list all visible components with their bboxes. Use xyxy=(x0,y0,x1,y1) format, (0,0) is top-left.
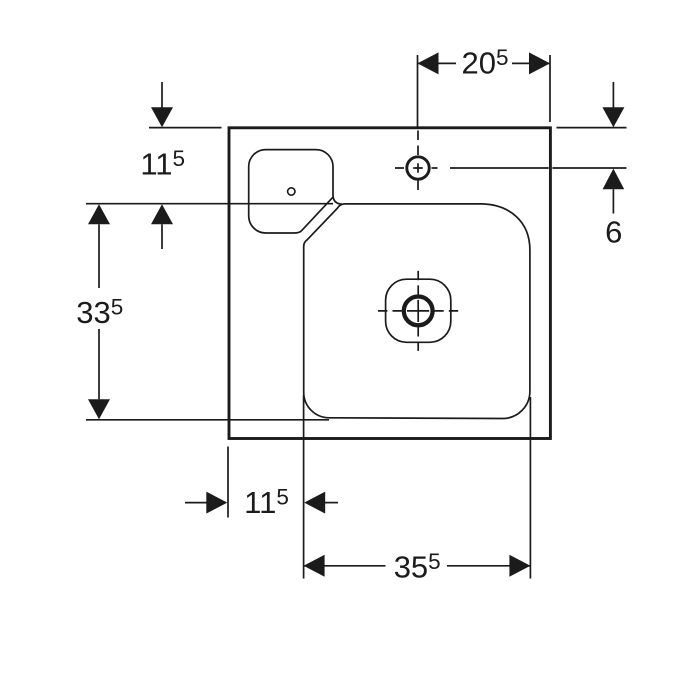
dimension 20.5: dimension line segments xyxy=(418,62,551,64)
dimension 11.5 bottom: left arrowhead (pointing right) xyxy=(206,492,227,514)
dimension 20.5: left extension line (tap centerline up) xyxy=(417,55,419,128)
dimension 11.5 bottom: left arrow tail xyxy=(185,502,207,504)
svg-text:6: 6 xyxy=(605,214,622,249)
main basin outline with chamfered top-left spillway xyxy=(304,204,530,419)
dimension 33.5: up arrowhead xyxy=(88,204,110,224)
overflow hole in small bowl xyxy=(288,188,295,195)
dimension 35.5: dimension line segments xyxy=(304,565,531,567)
dimension 33.5: dimension line lower segment xyxy=(98,329,100,399)
dimension 11.5 top-left: down arrowhead xyxy=(151,107,173,127)
dimension 35.5: left arrowhead xyxy=(304,555,325,577)
svg-text:335: 335 xyxy=(76,294,123,330)
dimension 33.5: lower boundary line xyxy=(86,419,329,421)
dimension 11.5 bottom: right arrow tail xyxy=(325,502,338,504)
dimension 35.5: right arrowhead xyxy=(509,555,530,577)
dimension 35.5: right extension line (basin right edge down) xyxy=(529,397,531,579)
small corner bowl outline (top-left shelf bowl) xyxy=(249,150,342,233)
dimension 20.5: right arrowhead xyxy=(529,52,550,74)
dimension 11.5 top-left: up arrowhead xyxy=(151,204,173,224)
dimension 11.5 top-left: down arrow tail xyxy=(161,82,163,108)
tap hole horizontal centerline extending right to 6-dimension xyxy=(395,167,627,169)
drain vertical centerline (dashed) xyxy=(417,271,419,351)
tap hole vertical centerline (dashed) xyxy=(417,131,419,191)
dimension 11.5 top-left: top edge extension line xyxy=(149,127,222,129)
dimension 11.5 bottom: left extension line below square xyxy=(227,447,229,518)
dimension 6: down arrowhead xyxy=(602,107,624,127)
svg-text:205: 205 xyxy=(462,45,509,81)
dimension 11.5 top-left: up arrow tail xyxy=(161,224,163,249)
svg-text:115: 115 xyxy=(140,146,185,182)
dimension 20.5: left arrowhead xyxy=(418,52,439,74)
washbasin outer rim (square, top view) xyxy=(229,128,550,439)
svg-text:355: 355 xyxy=(394,549,441,585)
drain ring (thick circle) xyxy=(404,297,433,326)
dimension 6: up arrowhead xyxy=(603,169,625,190)
drain outer cover (rounded square) xyxy=(386,279,451,342)
dimension 11.5 bottom: right extension line (basin left edge down) xyxy=(303,395,305,579)
tap hole circle xyxy=(407,157,429,179)
dimension 20.5: right extension line xyxy=(549,55,551,122)
dimension 33.5: dimension line upper segment xyxy=(98,224,100,288)
dimension 6: up arrow tail xyxy=(612,189,614,213)
dimension 6: top edge extension line right xyxy=(557,127,627,129)
dimension 33.5: down arrowhead xyxy=(88,399,110,419)
drain horizontal centerline (dashed) xyxy=(378,310,458,312)
dimension 33.5: upper boundary line xyxy=(86,203,333,205)
dimension 6: down arrow tail xyxy=(612,82,614,108)
svg-text:115: 115 xyxy=(244,485,289,521)
dimension 11.5 bottom: right arrowhead (pointing left) xyxy=(304,492,325,514)
